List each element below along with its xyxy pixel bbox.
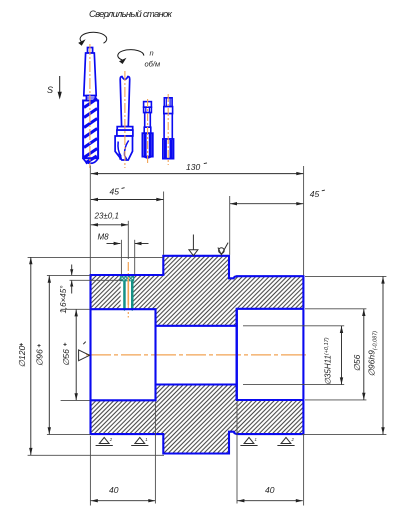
dim lines M8 [107,243,121,245]
dim line 40 left [91,500,156,502]
svg-text:Сверлильный станок: Сверлильный станок [89,9,173,20]
part section hatch upper [91,256,304,326]
ext line chamfer 1.6x45 [70,279,123,281]
ext lines bottom 40 right [236,402,238,504]
svg-text:1,6×45°: 1,6×45° [59,285,68,314]
ext line flange left [163,192,165,255]
svg-text:130: 130 [186,162,200,172]
roughness symbol with circle (no machining) [218,243,228,255]
ext lines M8 [120,240,122,274]
support symbol 1 [96,437,113,445]
spindle rotation arrow 1 [80,32,107,43]
M8 tapped hole highlight: chamfer band [120,276,133,281]
support symbol 3 [240,437,257,445]
ext lines d96 left [47,274,91,276]
tool T3 tap [142,102,152,159]
ext lines bottom 40 left [89,436,91,506]
dim lines chamfer [71,265,73,276]
tool T1 flutes [84,99,97,164]
svg-text:об/м: об/м [145,60,161,69]
support symbol 4 [277,437,294,445]
ext line hole axis [127,221,129,259]
dim line d96h9 [382,277,384,435]
svg-text:1: 1 [145,437,147,442]
dim line d35 [341,326,343,385]
ext line right face [303,166,305,275]
dim line d56 left [75,309,77,400]
dimension arrowheads [29,172,385,503]
spindle rotation arrow 2 [118,50,144,60]
ext line flange right [229,196,231,255]
svg-text:∅120: ∅120 [17,345,27,367]
tool T4 tap [163,98,174,159]
dim line 45 right [230,203,303,205]
dim line 130 [91,173,303,175]
left bore 56 [91,309,156,400]
svg-text:1: 1 [255,437,257,442]
part outer profile [91,256,304,454]
dim line d96 [48,276,50,435]
dim line 45 left [91,199,164,201]
M8 tapped hole walls [123,281,126,311]
axis centerline [86,354,308,356]
part section hatch lower [91,385,304,454]
right bore 56 [237,309,304,400]
dim line d56 right [363,309,365,400]
svg-text:М8: М8 [98,233,110,242]
svg-text:23±0,1: 23±0,1 [94,212,119,221]
svg-text:45: 45 [310,189,320,199]
svg-text:S: S [47,85,53,95]
roughness symbol flange top (triangle with stem) [189,235,198,256]
ext lines d120 [28,256,164,258]
ext line left face [89,166,91,275]
roughness symbol in bore (triangle apex right) [79,342,90,361]
center hole 35 [156,325,237,327]
svg-text:45: 45 [110,187,120,197]
svg-text:40: 40 [109,485,119,495]
svg-text:∅56: ∅56 [61,349,71,366]
dim line 40 right [237,500,303,502]
tool centerlines [90,44,168,168]
ext lines d56 right bore [305,308,366,310]
support symbol 2 [131,437,148,445]
dim line 23 [91,224,128,226]
ext lines d96h9 [305,275,386,277]
ext lines d35 [243,325,344,327]
svg-text:∅96: ∅96 [35,349,45,366]
M8 tapped hole void [121,276,134,309]
dim line d120 [30,257,32,455]
tool T1 twist drill [83,48,98,164]
M8 hole centerline [127,262,129,280]
tool T2 countersink [115,77,133,161]
ext lines d56 left bore [61,308,90,310]
svg-text:40: 40 [265,485,275,495]
svg-text:∅56: ∅56 [352,354,362,371]
svg-text:n: n [150,49,154,58]
